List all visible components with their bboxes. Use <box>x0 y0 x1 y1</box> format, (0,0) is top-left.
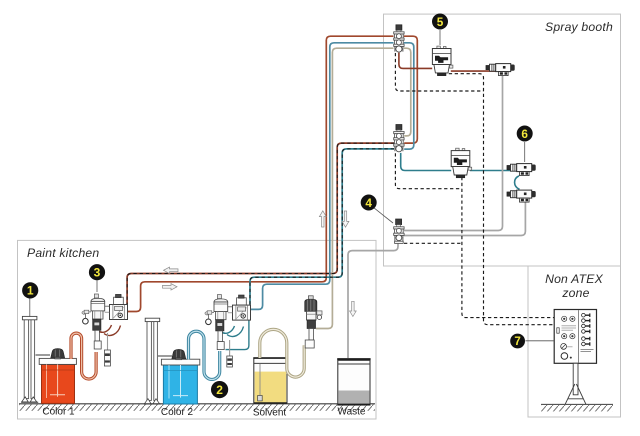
flow arrow up on supply bundle <box>319 211 326 227</box>
solvent container <box>253 358 287 404</box>
wire solvent continuation: manifold1 to manifold2 top port <box>404 48 411 136</box>
flow arrow right on color1 supply <box>163 284 178 290</box>
pump1 drain fitting <box>104 350 110 366</box>
wire color2 supply continuation: manifold1 to manifold2 bottom port <box>404 43 414 149</box>
spray gun 5 <box>486 64 515 76</box>
callout 5 <box>432 14 448 46</box>
flow arrow left on color1 return <box>164 267 179 273</box>
wire gun5 gray return to valve4 <box>404 75 503 230</box>
color change manifold 1 <box>394 25 404 52</box>
air dashed overlay on color1 return <box>127 143 394 304</box>
air dashed line: regulator5 to control panel <box>449 74 554 325</box>
air dashed line: manifold1 drop <box>395 53 483 91</box>
agitator bracket 1 <box>36 354 51 356</box>
air dashed overlay on color2 return <box>250 149 394 305</box>
svg-text:1: 1 <box>27 284 34 298</box>
waste container <box>337 359 370 405</box>
callout 6 <box>517 126 533 163</box>
control panel 7 <box>554 310 596 405</box>
callout 2 <box>211 381 228 398</box>
flow arrow down on return bundle <box>342 211 349 227</box>
spray gun 6b <box>507 190 536 202</box>
color 1 drum <box>39 358 76 403</box>
dump valve 4 <box>394 219 404 243</box>
pump group 2 (color 2) <box>205 295 251 350</box>
paint regulator 5 <box>432 46 453 76</box>
wire pump2 unit drain to drum2 <box>226 319 249 350</box>
wire color2 supply: pump2 unit to manifold1 <box>251 43 394 310</box>
hose color2 suction drum2 to pump2 <box>189 331 220 379</box>
svg-text:Waste: Waste <box>338 406 366 417</box>
svg-text:5: 5 <box>437 15 444 29</box>
wire solvent supply: solvent pump to manifold1 <box>316 48 394 328</box>
wire pump2 outlet loops <box>221 326 235 333</box>
color change manifold 2 <box>394 125 404 152</box>
wire manifold1 outlet to regulator5 <box>399 53 432 69</box>
svg-text:Spray booth: Spray booth <box>545 20 613 34</box>
air dashed line: valve4 branch <box>404 242 462 244</box>
wire regulator5 to gun5 <box>451 70 498 72</box>
wire gun6b gray return to valve4 <box>404 201 525 236</box>
air dashed line: regulator2 to control panel <box>462 177 554 318</box>
non ATEX zone box <box>528 266 621 417</box>
svg-text:7: 7 <box>514 336 520 348</box>
wire valve4 to waste container <box>348 244 398 358</box>
svg-text:Color 2: Color 2 <box>161 407 194 418</box>
paint regulator 2 <box>451 148 472 178</box>
svg-text:3: 3 <box>94 266 101 280</box>
flow arrow down on waste line <box>350 301 357 316</box>
color 1 agitator motor <box>51 349 65 359</box>
svg-text:zone: zone <box>561 286 589 300</box>
pump2 drain fitting <box>227 356 233 367</box>
wire pump1 outlet loops <box>98 325 112 332</box>
solvent pump <box>305 296 322 348</box>
spray gun 6a <box>507 164 536 176</box>
svg-text:6: 6 <box>521 127 528 141</box>
wire color2 return: manifold2 to pump2 unit <box>250 149 394 305</box>
elevator stand 1 <box>21 316 38 402</box>
wire gun6a to gun6b <box>515 176 520 190</box>
svg-text:2: 2 <box>216 383 223 397</box>
hose color1 suction drum1 to pump1 <box>71 333 96 379</box>
svg-text:Non ATEX: Non ATEX <box>545 272 603 286</box>
color 2 agitator motor <box>172 349 186 359</box>
wire color1 supply: pump1 unit to manifold1 <box>127 36 394 311</box>
elevator stand 2 <box>144 318 161 404</box>
wire color1 supply continuation: manifold1 to manifold2 mid port <box>404 36 418 143</box>
svg-text:Color 1: Color 1 <box>42 407 75 418</box>
svg-text:Solvent: Solvent <box>253 408 287 419</box>
air dashed line: manifold2 drop <box>395 153 462 189</box>
wire pump1 drain stub <box>107 333 109 350</box>
non ATEX ground <box>541 403 613 405</box>
svg-text:4: 4 <box>365 196 372 210</box>
spray booth zone box <box>384 14 621 266</box>
callout 4 <box>361 195 393 224</box>
callout 3 <box>89 264 105 292</box>
callout 1 <box>22 282 38 317</box>
paint kitchen ground <box>19 403 375 405</box>
agitator bracket 2 <box>158 355 172 357</box>
wire color1 return: manifold2 to pump1 unit <box>127 143 394 304</box>
paint kitchen zone box <box>18 240 377 419</box>
wire pump2 drain stub <box>229 340 231 356</box>
svg-text:Paint kitchen: Paint kitchen <box>27 246 99 260</box>
hose solvent suction to solvent pump <box>260 329 304 377</box>
color 2 drum <box>161 359 199 404</box>
wire regulator2 to gun6a <box>470 170 512 172</box>
pump group 1 (color 1) <box>82 294 128 349</box>
callout 7 <box>510 334 554 349</box>
wire manifold2 outlet to regulator2 <box>401 153 452 171</box>
